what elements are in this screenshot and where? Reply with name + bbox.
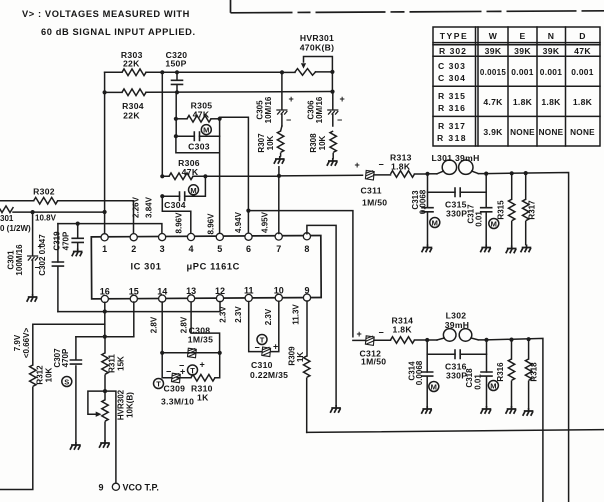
svg-text:0.001: 0.001	[540, 67, 563, 77]
wire: R306 row extension to C311	[279, 174, 363, 177]
svg-text:M: M	[203, 126, 209, 135]
mark: (M) at C303	[201, 125, 211, 135]
mark: (T) at C308	[188, 365, 198, 375]
svg-text:−: −	[286, 115, 291, 125]
svg-text:1.8K: 1.8K	[393, 325, 413, 335]
wire: pin11 riser	[249, 302, 262, 352]
node: L302 left / C314	[425, 338, 429, 342]
svg-text:0.0068: 0.0068	[419, 189, 428, 214]
svg-text:HVR302: HVR302	[117, 389, 126, 420]
ground: under R315	[506, 246, 517, 254]
svg-text:1.8K: 1.8K	[513, 97, 533, 107]
svg-text:11: 11	[244, 286, 254, 296]
svg-text:0 (1/2W): 0 (1/2W)	[0, 224, 31, 233]
svg-text:+: +	[273, 342, 278, 352]
svg-text:R 317: R 317	[438, 121, 466, 131]
ground: under R318	[523, 408, 534, 416]
node: pin16 at sub bus	[103, 309, 107, 313]
mark: (T) at C309	[154, 379, 164, 389]
svg-text:10M/16: 10M/16	[315, 96, 324, 123]
resistor R309	[288, 301, 310, 432]
svg-text:2.26V: 2.26V	[132, 196, 141, 218]
wire: sub-IC bus from C302 to pin12	[58, 302, 220, 312]
svg-text:R 315: R 315	[438, 91, 466, 101]
svg-text:C303: C303	[188, 142, 210, 152]
node: L301 left / C313	[425, 172, 429, 176]
svg-text:470P: 470P	[61, 348, 70, 367]
wire: C307/R311 line	[76, 336, 134, 338]
node: R318 top	[527, 337, 531, 341]
svg-text:L301 39mH: L301 39mH	[432, 153, 480, 163]
wire: pin1 vertical from R303 row down to pin 1	[104, 72, 106, 234]
node: R315 top	[510, 171, 514, 175]
node: R304 right / HVR301	[330, 90, 334, 94]
svg-text:M: M	[491, 220, 497, 229]
capacitor C316	[427, 349, 486, 380]
wire: R305 right to pin6 riser	[220, 117, 249, 234]
svg-text:R 316: R 316	[438, 103, 466, 113]
mark: (S) at C307	[62, 377, 72, 387]
node: R306 row at pin7	[277, 174, 281, 178]
label: pin voltages bottom (rotated)	[150, 304, 301, 334]
svg-text:M: M	[490, 382, 496, 391]
capacitor C308 loop top	[162, 325, 220, 370]
node: R311 bottom / HVR302 top	[103, 389, 107, 393]
capacitor C302	[38, 224, 64, 312]
svg-text:NONE: NONE	[510, 128, 535, 137]
mark: (M) at C317	[489, 219, 499, 229]
ground: under C319	[72, 249, 83, 257]
capacitor C306 (electrolytic)	[307, 92, 345, 126]
node: L301 right / C317	[484, 172, 488, 176]
svg-text:1M/50: 1M/50	[361, 357, 386, 367]
svg-text:1.8K: 1.8K	[391, 162, 411, 172]
capacitor C320	[165, 50, 187, 93]
svg-text:<0.66V>: <0.66V>	[22, 328, 31, 359]
svg-text:10K: 10K	[318, 135, 327, 150]
mark: (M) at C314	[429, 382, 439, 392]
svg-text:3.84V: 3.84V	[145, 196, 154, 218]
ground: under HVR302	[99, 440, 110, 448]
IC U301 box	[91, 235, 321, 298]
svg-text:47K: 47K	[193, 109, 210, 119]
capacitor C304	[162, 176, 205, 210]
svg-text:15: 15	[129, 287, 139, 297]
svg-text:C304: C304	[164, 200, 186, 210]
label: 7.9V 0.66V	[13, 328, 31, 359]
svg-text:470K(B): 470K(B)	[300, 43, 335, 53]
resistor R310	[191, 353, 220, 403]
node: C308 left	[160, 351, 164, 355]
svg-text:150P: 150P	[165, 59, 186, 69]
svg-text:3: 3	[160, 244, 165, 254]
svg-text:2: 2	[131, 244, 136, 254]
svg-text:2.8V: 2.8V	[150, 316, 159, 333]
mark: (M) at C313	[430, 218, 440, 228]
svg-text:+: +	[340, 94, 345, 104]
IC pins bottom row circles	[100, 285, 311, 302]
svg-text:4.94V: 4.94V	[234, 211, 243, 233]
svg-text:10K: 10K	[45, 367, 54, 382]
svg-text:N: N	[548, 31, 555, 41]
svg-text:470P: 470P	[62, 231, 71, 250]
ground: under R308	[327, 158, 338, 166]
svg-text:12: 12	[215, 286, 225, 296]
svg-text:R307: R307	[257, 133, 266, 153]
svg-text:16: 16	[100, 287, 110, 297]
svg-text:R302: R302	[33, 187, 55, 197]
node: HVR301 right terminal	[330, 70, 334, 74]
svg-text:NONE: NONE	[539, 128, 564, 137]
svg-text:22K: 22K	[123, 111, 140, 121]
wire: bottom bus from R309 to right edge	[307, 430, 604, 433]
svg-text:8.96V: 8.96V	[207, 213, 216, 235]
svg-text:S: S	[64, 378, 69, 387]
svg-text:R304: R304	[122, 101, 144, 111]
svg-text:R318: R318	[530, 362, 539, 382]
capacitor C314	[408, 340, 434, 406]
capacitor C312 (electrolytic)	[353, 327, 391, 366]
ground: under R316	[506, 406, 517, 414]
svg-text:−: −	[379, 327, 384, 337]
resistor R301 (edge, partial)	[0, 206, 105, 233]
svg-text:T: T	[260, 336, 265, 345]
ground: under R307	[274, 156, 285, 164]
svg-text:V> : VOLTAGES MEASURED WIT: V> : VOLTAGES MEASURED WITH	[22, 9, 190, 19]
svg-text:C311: C311	[361, 186, 382, 196]
svg-text:15K: 15K	[117, 356, 126, 371]
resistor R315	[497, 173, 515, 245]
svg-text:1K: 1K	[296, 352, 305, 362]
node: C304 left	[160, 194, 164, 198]
svg-text:C319: C319	[53, 231, 62, 251]
node: C320 bottom / R305 branch	[175, 90, 179, 94]
svg-text:10K: 10K	[266, 135, 275, 150]
capacitor C318	[465, 340, 493, 406]
ground: pin8 net	[330, 405, 341, 413]
svg-text:22K: 22K	[123, 59, 140, 69]
svg-text:39K: 39K	[485, 46, 502, 56]
svg-text:R317: R317	[528, 200, 537, 220]
svg-text:1K: 1K	[197, 393, 209, 403]
mark: (T) at C310	[257, 335, 267, 345]
ground: under C314	[421, 406, 432, 414]
svg-text:R312: R312	[36, 365, 45, 385]
node: L302 right / C318	[484, 338, 488, 342]
node: R306 right / C304 right	[203, 174, 207, 178]
svg-text:7.9V: 7.9V	[13, 334, 22, 351]
resistor R316	[496, 340, 515, 406]
node: pin6 branch	[246, 209, 250, 213]
ground: under C307	[70, 442, 81, 450]
node: HVR301 left / C305 top	[280, 70, 284, 74]
svg-text:TYPE: TYPE	[440, 31, 468, 41]
capacitor C301 (electrolytic)	[7, 212, 43, 294]
svg-text:+: +	[200, 360, 205, 370]
ground: under C313	[422, 245, 433, 253]
svg-text:D: D	[579, 31, 586, 41]
svg-text:2.3V: 2.3V	[264, 308, 273, 325]
potentiometer HVR301	[282, 33, 334, 92]
svg-text:301: 301	[0, 214, 14, 223]
svg-text:−: −	[379, 160, 384, 170]
resistor R311	[102, 337, 126, 391]
svg-text:10M/16: 10M/16	[264, 96, 273, 123]
node: R317 top	[524, 171, 528, 175]
wire: main row to right edge turn	[486, 173, 568, 502]
inductor L301	[428, 153, 487, 175]
svg-text:10.8V: 10.8V	[35, 214, 57, 223]
wire: pin15 riser	[133, 302, 135, 336]
wire: R307 ground tail to R306 row	[278, 167, 280, 176]
capacitor C315	[428, 187, 487, 218]
svg-text:2.3V: 2.3V	[234, 306, 243, 323]
svg-text:T: T	[156, 380, 161, 389]
svg-text:8: 8	[304, 244, 309, 254]
svg-text:100M/16: 100M/16	[15, 244, 24, 276]
wire: pin3 line from C302 top through C319	[58, 224, 162, 234]
svg-text:R315: R315	[497, 200, 506, 220]
capacitor C319	[53, 224, 84, 251]
svg-text:39K: 39K	[543, 46, 560, 56]
svg-text:C 304: C 304	[438, 73, 466, 83]
node: C301 top	[30, 210, 34, 214]
svg-text:C310: C310	[251, 360, 273, 370]
wire: R312 branch	[33, 324, 105, 365]
svg-text:4: 4	[188, 244, 193, 254]
svg-text:47K: 47K	[182, 167, 199, 177]
resistor R303	[105, 50, 282, 76]
svg-text:4.7K: 4.7K	[483, 97, 503, 107]
capacitor C309 and loop bottom	[161, 353, 194, 407]
capacitor C305 (electrolytic)	[256, 72, 294, 126]
ground: under C317	[480, 245, 491, 253]
svg-text:R311: R311	[108, 354, 117, 373]
svg-text:13: 13	[186, 286, 196, 296]
svg-text:C309: C309	[164, 384, 186, 394]
svg-text:M: M	[432, 219, 438, 228]
capacitor C303	[176, 131, 220, 151]
wire: VCO test point	[98, 391, 158, 492]
capacitor C313	[411, 174, 434, 245]
svg-text:IC 301: IC 301	[131, 262, 162, 272]
node: R305 left	[174, 117, 178, 121]
svg-text:R 302: R 302	[439, 46, 467, 56]
wire: pin7 riser	[278, 176, 280, 234]
svg-text:NONE: NONE	[570, 128, 595, 137]
svg-text:μPC 1161C: μPC 1161C	[187, 262, 240, 272]
svg-text:8.96V: 8.96V	[175, 212, 184, 234]
resistor R307	[257, 126, 284, 156]
node: pin16 line at R311 line	[103, 335, 107, 339]
resistor R312	[0, 365, 54, 490]
svg-text:0.22M/35: 0.22M/35	[250, 370, 288, 380]
node: C319 top	[76, 222, 80, 226]
svg-text:1.8K: 1.8K	[573, 97, 593, 107]
svg-text:0.0015: 0.0015	[480, 68, 507, 77]
mark: (M) at C318	[488, 381, 498, 391]
resistor R302	[0, 187, 134, 234]
mark: (M) at C304	[189, 185, 199, 195]
node: R316 top	[509, 338, 513, 342]
node: C308 right	[218, 351, 222, 355]
ground: under C318	[481, 406, 492, 414]
svg-text:M: M	[190, 186, 196, 195]
svg-text:C302 0.047: C302 0.047	[38, 234, 47, 276]
svg-text:0.0068: 0.0068	[415, 360, 424, 385]
node: C303 left	[174, 134, 178, 138]
resistor R306	[162, 72, 279, 179]
svg-text:1.8K: 1.8K	[541, 97, 561, 107]
svg-text:2.8V: 2.8V	[180, 316, 189, 333]
svg-text:0.001: 0.001	[571, 67, 594, 77]
node: R306 left	[160, 174, 164, 178]
svg-text:1M/50: 1M/50	[362, 198, 387, 208]
node: y212 line at pin1	[103, 210, 107, 214]
svg-text:9: 9	[304, 285, 309, 295]
svg-text:47K: 47K	[574, 46, 591, 56]
svg-text:R 318: R 318	[437, 133, 467, 143]
svg-text:5: 5	[217, 244, 222, 254]
ground: under C301	[27, 294, 38, 302]
svg-text:VCO T.P.: VCO T.P.	[123, 483, 159, 493]
potentiometer HVR302	[88, 389, 135, 440]
svg-text:+: +	[180, 367, 185, 377]
svg-text:6: 6	[246, 244, 251, 254]
svg-text:M: M	[431, 383, 437, 392]
svg-text:60 dB SIGNAL INPUT APPLIED: 60 dB SIGNAL INPUT APPLIED.	[41, 27, 196, 37]
svg-text:9: 9	[98, 483, 103, 493]
svg-text:10: 10	[274, 286, 284, 296]
resistor R308	[309, 131, 336, 158]
label: pin voltages top (rotated)	[132, 196, 270, 234]
ground: under R317	[521, 245, 532, 253]
wire: pin13 riser and jog	[191, 302, 220, 353]
svg-text:+: +	[289, 94, 294, 104]
svg-text:11.3V: 11.3V	[292, 304, 301, 325]
svg-text:HVR301: HVR301	[300, 33, 334, 43]
wire: pin16 riser down	[104, 302, 106, 336]
capacitor C307	[53, 337, 82, 442]
svg-text:3.3M/10: 3.3M/10	[161, 397, 194, 407]
svg-text:R316: R316	[496, 362, 505, 382]
svg-text:0.01: 0.01	[474, 374, 483, 390]
wire: pin8 to ground riser	[307, 225, 336, 405]
svg-text:R308: R308	[309, 133, 318, 153]
capacitor C311 (electrolytic)	[355, 160, 391, 208]
wire: pin4 riser from C304 node	[162, 196, 191, 234]
capacitor C310	[250, 342, 288, 381]
resistor R318	[525, 339, 538, 408]
resistor R304	[105, 89, 333, 121]
svg-text:−: −	[337, 115, 342, 125]
resistor R305	[176, 101, 220, 123]
svg-text:E: E	[519, 31, 525, 41]
svg-text:1: 1	[102, 244, 107, 254]
svg-text:−: −	[166, 367, 171, 377]
svg-text:10K(B): 10K(B)	[126, 392, 135, 418]
note: voltages measured text	[22, 9, 196, 37]
boundary dash-dot line top	[231, 0, 604, 13]
node: C320 top	[175, 70, 179, 74]
resistor R314	[391, 316, 428, 344]
node: R304 left on pin1 line	[103, 90, 107, 94]
table: parts value table	[433, 27, 600, 146]
node: R303 right / pin4 branch	[160, 70, 164, 74]
svg-text:+: +	[355, 160, 360, 170]
svg-text:39K: 39K	[514, 46, 531, 56]
node: R305 right	[218, 117, 222, 121]
IC pins top row circles	[101, 233, 311, 254]
wire: L302 row to right turn	[487, 338, 543, 502]
svg-text:0.01: 0.01	[475, 211, 484, 227]
wire: pin10 riser	[271, 301, 279, 351]
svg-text:0.001: 0.001	[511, 67, 534, 77]
resistor R313	[390, 153, 428, 178]
svg-text:330P: 330P	[446, 209, 467, 219]
capacitor C317	[467, 174, 493, 245]
inductor L302	[427, 311, 486, 342]
svg-text:C 303: C 303	[438, 61, 466, 71]
wire: pin6 branch to C312 row	[248, 211, 353, 337]
svg-text:W: W	[489, 31, 498, 41]
svg-text:1M/35: 1M/35	[188, 334, 213, 344]
svg-text:7: 7	[276, 244, 281, 254]
wire: pin5 riser (C303 right, R305 right down to pin 5)	[176, 119, 220, 234]
svg-text:4.95V: 4.95V	[260, 211, 269, 233]
svg-text:3.9K: 3.9K	[483, 127, 503, 137]
svg-text:39mH: 39mH	[445, 320, 470, 330]
wire: pin14 riser to C308 loop	[161, 302, 163, 353]
svg-text:14: 14	[157, 286, 167, 296]
svg-text:+: +	[357, 329, 362, 339]
resistor R317	[523, 173, 537, 244]
wire: R305/C303 left riser from R304 row	[175, 92, 177, 136]
